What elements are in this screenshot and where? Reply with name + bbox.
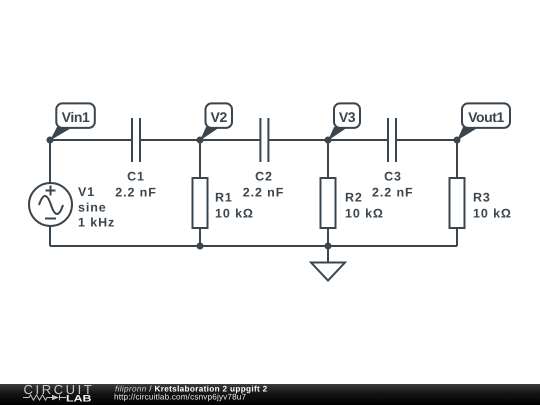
svg-text:V2: V2 [211,109,228,125]
capacitor C2 [260,118,268,162]
svg-text:V1: V1 [78,185,95,199]
wire R2 top stem [327,140,329,179]
wire V1 top stem [49,140,51,184]
wire R3 bottom stem [456,227,458,246]
voltage source V1 [29,183,72,226]
wire V1 bottom stem [49,225,51,246]
svg-text:10 kΩ: 10 kΩ [345,207,384,221]
resistor R2 [321,178,336,228]
svg-text:2.2 nF: 2.2 nF [243,186,285,200]
node junction dots [47,137,461,250]
svg-text:R1: R1 [215,191,233,205]
node flag Vin1 [50,103,95,140]
svg-text:sine: sine [78,201,107,215]
svg-text:Vout1: Vout1 [468,109,504,125]
svg-text:Vin1: Vin1 [62,109,90,125]
wire top rail Vin1 to C1 [50,139,132,141]
label C2 value [243,170,285,200]
footer bar [0,384,540,405]
svg-text:V3: V3 [339,109,356,125]
node flag V2 [200,103,232,140]
svg-text:1 kHz: 1 kHz [78,216,115,230]
wire R2 bottom stem [327,227,329,246]
svg-text:C3: C3 [384,170,402,184]
capacitor C1 [132,118,140,162]
svg-text:http://circuitlab.com/csnvp6jy: http://circuitlab.com/csnvp6jyv78u7 [114,393,247,402]
wire top rail C3 to Vout1 [396,139,457,141]
wire R1 bottom stem [199,227,201,246]
label C1 value [115,170,157,200]
label V1 value [78,185,115,230]
resistor R3 [450,178,465,228]
svg-text:C1: C1 [127,170,145,184]
svg-text:R2: R2 [345,191,363,205]
wire R1 top stem [199,140,201,179]
wire top rail C1 to C2 [140,139,260,141]
node flag Vout1 [457,103,510,140]
label C3 value [372,170,414,200]
svg-text:10 kΩ: 10 kΩ [473,207,512,221]
wire top rail C2 to C3 [268,139,388,141]
node flag V3 [328,103,360,140]
ground [311,263,345,281]
label R2 value [345,191,384,221]
svg-text:C2: C2 [255,170,273,184]
svg-text:2.2 nF: 2.2 nF [115,186,157,200]
label R1 value [215,191,254,221]
capacitor C3 [388,118,396,162]
svg-text:10 kΩ: 10 kΩ [215,207,254,221]
wire R3 top stem [456,140,458,179]
svg-text:LAB: LAB [66,393,92,404]
svg-text:R3: R3 [473,191,491,205]
footer logo wire resistor diode [23,395,66,401]
wire bottom rail [50,245,457,247]
label R3 value [473,191,512,221]
wire ground stem [327,246,329,263]
svg-text:2.2 nF: 2.2 nF [372,186,414,200]
resistor R1 [193,178,208,228]
